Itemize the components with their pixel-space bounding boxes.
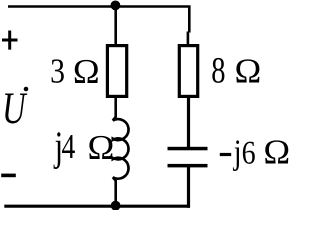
label -j6 ohm minus sign [220, 153, 231, 156]
source terminal minus sign [1, 174, 16, 178]
label -j6 ohm value [232, 133, 290, 172]
resistor 3 ohm [107, 46, 126, 97]
svg-text:U: U [2, 83, 27, 133]
svg-text:Ω: Ω [263, 133, 290, 172]
inductor j4 ohm coil [113, 117, 129, 181]
svg-text:4: 4 [62, 127, 76, 166]
wire inductor to bottom rail [114, 180, 117, 207]
junction node bottom [111, 201, 121, 211]
capacitor -j6 ohm top plate [168, 147, 208, 151]
svg-text:8: 8 [211, 51, 225, 92]
wire right branch from top rail to resistor [187, 32, 190, 46]
svg-text:Ω: Ω [235, 52, 262, 91]
wire top rail [8, 7, 189, 33]
source voltage label U dot (phasor) [2, 83, 28, 133]
resistor 8 ohm [179, 46, 197, 97]
label 3 ohm value [50, 52, 100, 91]
svg-text:3: 3 [50, 52, 65, 91]
junction node top [111, 1, 121, 11]
wire resistor to inductor [114, 96, 117, 118]
svg-text:6: 6 [242, 136, 256, 172]
wire capacitor to bottom rail [187, 166, 190, 208]
wire bottom rail [4, 205, 190, 208]
svg-text:j: j [232, 133, 241, 172]
label j4 ohm value [53, 124, 114, 170]
label 8 ohm value [211, 51, 261, 92]
wire left branch from top node to resistor [114, 7, 117, 46]
capacitor -j6 ohm bottom plate [168, 164, 208, 168]
svg-text:Ω: Ω [88, 128, 115, 167]
svg-text:Ω: Ω [73, 52, 100, 91]
wire resistor to capacitor [187, 96, 190, 148]
source terminal plus sign [2, 31, 18, 50]
